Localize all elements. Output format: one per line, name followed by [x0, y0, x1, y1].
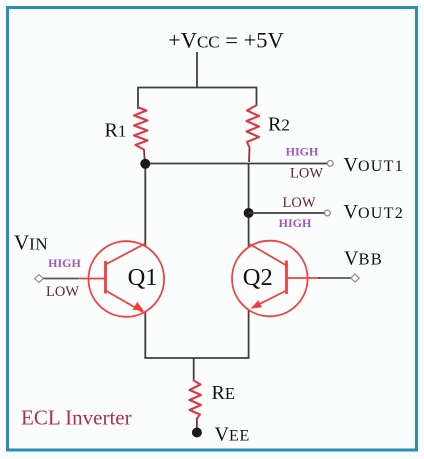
svg-text:ECL Inverter: ECL Inverter	[21, 406, 132, 430]
svg-text:Q1: Q1	[128, 264, 158, 291]
resistor RE	[190, 381, 202, 430]
svg-text:HIGH: HIGH	[286, 145, 319, 159]
svg-text:RE: RE	[212, 382, 236, 404]
svg-text:VEE: VEE	[215, 424, 251, 446]
svg-text:HIGH: HIGH	[48, 256, 81, 270]
wire right branch	[248, 164, 250, 358]
wire VOUT2	[249, 212, 325, 214]
terminal VIN	[35, 275, 43, 283]
wire top rail	[138, 88, 257, 110]
terminal VBB	[351, 274, 359, 282]
wire emitter rail	[144, 357, 249, 359]
terminal VOUT2	[325, 210, 331, 216]
svg-text:Q2: Q2	[243, 264, 273, 291]
svg-text:LOW: LOW	[282, 195, 315, 211]
svg-text:VIN: VIN	[14, 231, 48, 255]
node VCC label	[168, 28, 284, 53]
svg-text:VOUT2: VOUT2	[344, 201, 405, 223]
svg-text:LOW: LOW	[290, 166, 323, 182]
svg-text:R1: R1	[105, 120, 128, 142]
wire VIN	[43, 278, 78, 280]
wire VOUT1	[145, 163, 327, 165]
svg-text:+VCC = +5V: +VCC = +5V	[168, 28, 284, 53]
node junction A dot	[140, 159, 150, 169]
node VEE dot	[192, 428, 202, 438]
wire RE stem	[193, 358, 195, 381]
terminal VOUT1	[327, 161, 333, 167]
wire VBB	[318, 277, 351, 279]
svg-text:VOUT1: VOUT1	[344, 154, 405, 176]
svg-text:R2: R2	[268, 114, 290, 136]
wire left branch	[144, 164, 146, 358]
svg-text:VBB: VBB	[344, 248, 383, 270]
resistor R2	[247, 106, 260, 163]
svg-text:HIGH: HIGH	[279, 216, 312, 230]
wire VCC stem	[196, 52, 198, 88]
transistor Q2	[232, 241, 320, 317]
resistor R1	[134, 108, 148, 162]
svg-text:LOW: LOW	[46, 284, 79, 300]
transistor Q1	[77, 241, 164, 317]
node junction B dot	[244, 208, 254, 218]
